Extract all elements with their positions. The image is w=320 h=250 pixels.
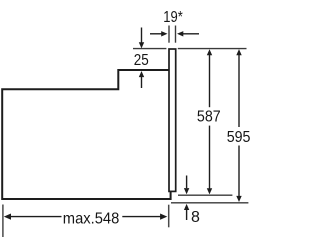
- 19* extension line right: [175, 26, 177, 43]
- svg-text:595: 595: [227, 129, 250, 146]
- bottom reference line B niche bottom: [171, 202, 248, 204]
- left extension line: [2, 205, 4, 238]
- oven body outline: [2, 70, 170, 199]
- oven door front panel: [169, 49, 176, 191]
- svg-text:587: 587: [197, 108, 221, 125]
- 8 dimension down arrow: [184, 176, 189, 195]
- top reference line: [133, 48, 247, 50]
- 25 dimension up arrow: [139, 71, 144, 88]
- 595 dimension line: [236, 49, 241, 202]
- bottom reference line A door bottom: [178, 194, 232, 196]
- svg-text:25: 25: [134, 52, 149, 69]
- 19* left arrow: [150, 31, 168, 36]
- svg-text:8: 8: [191, 209, 200, 226]
- svg-text:19*: 19*: [163, 9, 183, 26]
- right extension line: [168, 205, 170, 228]
- 19* extension line left: [168, 26, 170, 43]
- 587 dimension line: [207, 49, 212, 194]
- max.548 dimension line: [4, 214, 168, 220]
- 25 dimension down arrow: [139, 28, 144, 49]
- svg-text:max.548: max.548: [63, 211, 120, 228]
- 8 dimension up arrow: [184, 204, 189, 220]
- 19* right arrow: [177, 31, 199, 36]
